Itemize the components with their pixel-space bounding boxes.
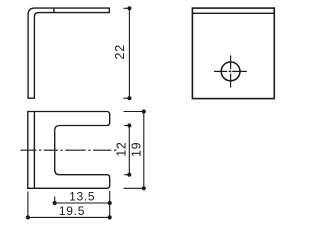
svg-text:22: 22: [113, 44, 127, 59]
svg-text:12: 12: [114, 141, 128, 156]
svg-text:13.5: 13.5: [69, 189, 95, 203]
svg-text:19: 19: [130, 142, 144, 157]
svg-text:19.5: 19.5: [59, 204, 85, 218]
